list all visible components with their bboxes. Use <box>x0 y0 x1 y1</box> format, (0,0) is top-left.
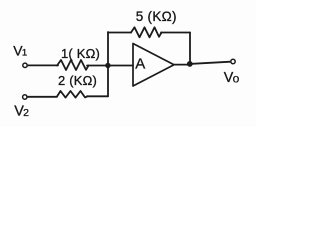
terminal V2 <box>23 95 27 99</box>
op-amp U1 triangle <box>133 44 174 87</box>
svg-text:1( KΩ): 1( KΩ) <box>61 46 100 61</box>
wire op-amp output to node <box>174 64 188 66</box>
wire node A to op-amp input <box>108 65 133 67</box>
wire junction vertical <box>107 32 109 96</box>
wire V2 to R2 <box>27 96 57 98</box>
svg-text:A: A <box>135 55 145 72</box>
wire node to terminal Vo <box>192 62 231 64</box>
svg-text:2 (KΩ): 2 (KΩ) <box>58 73 97 88</box>
resistor R1 1(KΩ) <box>57 60 89 70</box>
wire feedback down to output node <box>189 33 191 64</box>
svg-text:Vo: Vo <box>224 70 240 86</box>
wire feedback top right <box>161 32 190 34</box>
resistor R2 2(KΩ) <box>57 91 88 98</box>
svg-text:V1: V1 <box>13 42 27 58</box>
output node dot <box>187 61 193 67</box>
terminal V1 <box>23 63 27 67</box>
svg-text:V2: V2 <box>14 103 29 119</box>
resistor R5 5(KΩ) <box>131 27 162 37</box>
svg-text:5 (KΩ): 5 (KΩ) <box>136 9 177 24</box>
wire R2 to junction riser <box>87 95 108 97</box>
terminal Vo <box>231 59 235 63</box>
wire feedback top left <box>108 32 131 34</box>
wire V1 to R1 <box>27 64 58 66</box>
node A junction dot <box>105 63 110 68</box>
wire R1 to node A <box>87 65 108 67</box>
